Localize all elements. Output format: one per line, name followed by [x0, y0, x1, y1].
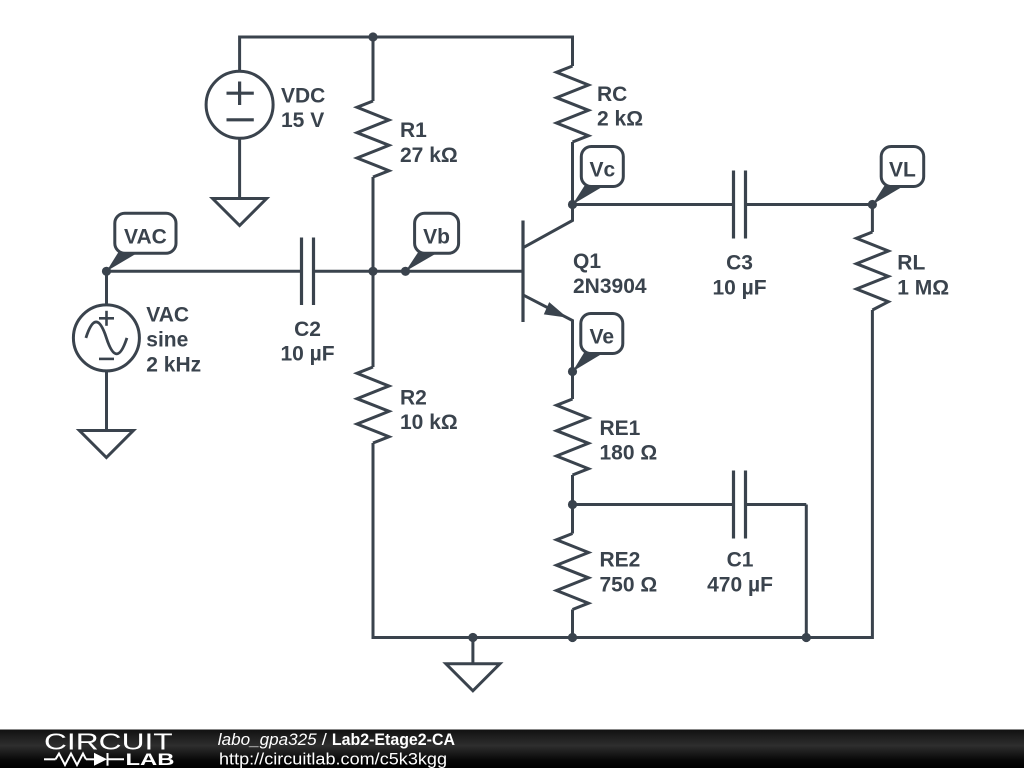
svg-text:750 Ω: 750 Ω — [600, 574, 658, 597]
svg-text:180 Ω: 180 Ω — [600, 442, 658, 465]
svg-text:C1: C1 — [727, 549, 754, 572]
svg-text:2 kHz: 2 kHz — [146, 353, 201, 376]
svg-text:10 kΩ: 10 kΩ — [400, 411, 458, 434]
svg-text:http://circuitlab.com/c5k3kgg: http://circuitlab.com/c5k3kgg — [219, 749, 447, 768]
svg-text:C3: C3 — [726, 252, 753, 275]
svg-text:10 µF: 10 µF — [280, 343, 334, 366]
svg-text:RE1: RE1 — [600, 417, 641, 440]
svg-text:VDC: VDC — [281, 84, 325, 107]
svg-text:VL: VL — [889, 159, 916, 182]
svg-text:2N3904: 2N3904 — [573, 275, 647, 298]
svg-text:C2: C2 — [294, 318, 321, 341]
svg-text:RC: RC — [597, 83, 627, 106]
svg-text:Q1: Q1 — [573, 250, 601, 273]
svg-text:2 kΩ: 2 kΩ — [597, 108, 643, 131]
svg-text:27 kΩ: 27 kΩ — [400, 144, 458, 167]
svg-text:Vc: Vc — [589, 159, 615, 182]
svg-text:VAC: VAC — [124, 225, 167, 248]
svg-text:R1: R1 — [400, 119, 427, 142]
svg-text:labo_gpa325 / Lab2-Etage2-CA: labo_gpa325 / Lab2-Etage2-CA — [218, 730, 455, 749]
svg-text:RL: RL — [897, 252, 925, 275]
svg-text:Vb: Vb — [423, 225, 450, 248]
svg-text:VAC: VAC — [146, 304, 189, 327]
svg-text:LAB: LAB — [126, 750, 175, 768]
svg-text:10 µF: 10 µF — [712, 276, 766, 299]
svg-text:RE2: RE2 — [600, 549, 641, 572]
svg-text:470 µF: 470 µF — [707, 574, 773, 597]
svg-text:sine: sine — [146, 329, 188, 352]
svg-text:Ve: Ve — [590, 326, 615, 349]
svg-text:1 MΩ: 1 MΩ — [897, 276, 949, 299]
svg-text:15 V: 15 V — [281, 109, 324, 132]
svg-text:R2: R2 — [400, 386, 427, 409]
